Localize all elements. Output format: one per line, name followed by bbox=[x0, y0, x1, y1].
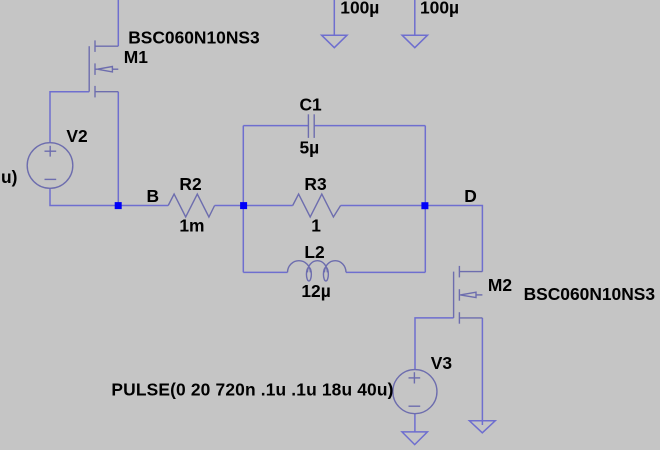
wire L2 right lead bbox=[346, 271, 425, 273]
svg-text:C1: C1 bbox=[300, 94, 323, 114]
svg-text:R2: R2 bbox=[179, 174, 201, 194]
resistor R3 bbox=[293, 194, 341, 217]
wire right rail vertical bbox=[424, 126, 426, 273]
transistor M2 bbox=[454, 266, 483, 324]
wire V3 bottom lead bbox=[414, 414, 416, 432]
transistor M1 bbox=[89, 40, 118, 97]
ground (M2 source) bbox=[469, 421, 495, 433]
svg-text:L2: L2 bbox=[304, 242, 324, 262]
wire node B to R2 bbox=[118, 205, 169, 207]
svg-text:100µ: 100µ bbox=[420, 0, 459, 18]
wire M1 source down to node B bbox=[117, 92, 119, 206]
wire left rail vertical bbox=[242, 126, 244, 273]
wire C1 row left bbox=[243, 125, 308, 127]
wire top cap lead 2 bbox=[414, 0, 416, 35]
svg-text:M1: M1 bbox=[124, 47, 148, 67]
svg-text:V3: V3 bbox=[431, 353, 453, 373]
ground (top left) bbox=[322, 35, 347, 48]
svg-text:V2: V2 bbox=[66, 126, 87, 146]
ground (top right) bbox=[402, 35, 427, 48]
svg-text:12µ: 12µ bbox=[301, 281, 330, 301]
wire M1 drain to top edge bbox=[117, 0, 119, 46]
resistor R2 bbox=[168, 194, 214, 217]
node D junction bbox=[421, 202, 428, 209]
svg-text:M2: M2 bbox=[488, 275, 512, 295]
ground (V3) bbox=[402, 432, 427, 445]
svg-text:D: D bbox=[464, 186, 477, 206]
wire C1 row right bbox=[314, 125, 425, 127]
wire M2 source to ground bbox=[481, 318, 483, 425]
svg-text:1m: 1m bbox=[179, 215, 204, 235]
wire R3 left lead bbox=[243, 205, 292, 207]
wire R3 right lead to node D bbox=[341, 205, 425, 207]
svg-text:R3: R3 bbox=[304, 174, 327, 194]
node mid junction bbox=[240, 202, 247, 209]
wire V2 top to M1 gate bbox=[50, 92, 89, 143]
svg-text:BSC060N10NS3: BSC060N10NS3 bbox=[524, 284, 656, 304]
capacitor C1 plates bbox=[307, 114, 309, 138]
svg-text:BSC060N10NS3: BSC060N10NS3 bbox=[128, 28, 260, 48]
svg-text:5µ: 5µ bbox=[300, 138, 320, 158]
voltage source V3 bbox=[393, 370, 437, 414]
svg-text:B: B bbox=[147, 186, 160, 206]
node B junction bbox=[115, 202, 122, 209]
wire M2 gate to V3 top bbox=[415, 318, 454, 369]
wire top cap lead 1 bbox=[333, 0, 335, 35]
wire L2 left lead bbox=[243, 271, 287, 273]
wire node D to M2 drain bbox=[425, 206, 483, 272]
wire R2 to mid node bbox=[215, 205, 244, 207]
voltage source V2 bbox=[27, 143, 73, 189]
svg-text:PULSE(0 20 720n .1u .1u 18u 40: PULSE(0 20 720n .1u .1u 18u 40u) bbox=[111, 380, 393, 400]
svg-text:100µ: 100µ bbox=[340, 0, 379, 18]
svg-text:1: 1 bbox=[311, 215, 321, 235]
wire V2 bottom to node B bbox=[50, 188, 118, 206]
inductor L2 bbox=[288, 261, 347, 273]
svg-text:u): u) bbox=[1, 167, 17, 187]
